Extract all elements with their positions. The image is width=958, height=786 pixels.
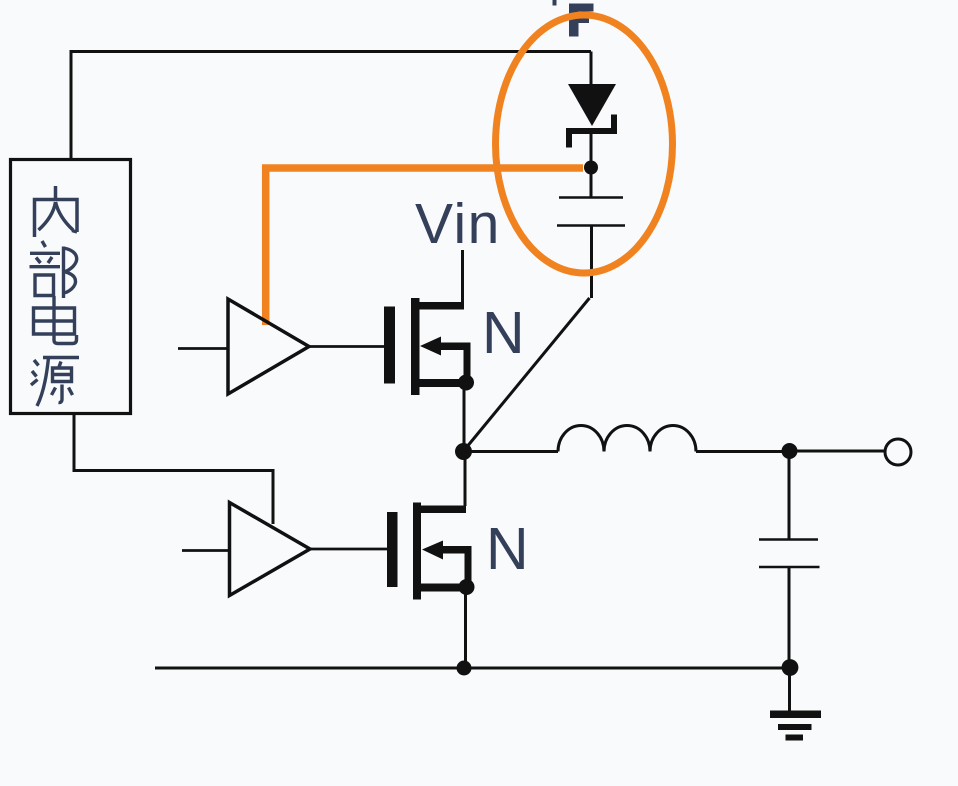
NMOS Q2 (low side) — [387, 503, 472, 600]
ground — [770, 711, 821, 741]
svg-text:Vin: Vin — [415, 192, 501, 256]
wire: diode stem from top rail — [590, 52, 593, 86]
node: Q2 body dot — [459, 579, 475, 595]
node: rail / Q2 source junction — [457, 661, 472, 676]
zener diode D1 — [566, 84, 617, 148]
wire: U1 output to Q1 gate — [309, 345, 384, 348]
label 源 — [31, 358, 79, 407]
wire: U1 input stub — [178, 347, 228, 350]
wire: Q2 drain to switch node — [464, 452, 467, 507]
svg-text:N: N — [482, 300, 525, 366]
driver U2 (bottom) — [230, 503, 311, 596]
wire: inductor to output node — [696, 450, 789, 453]
wire: Vin stub to Q1 drain — [461, 250, 464, 306]
node: output junction dot — [782, 443, 798, 459]
output terminal — [885, 439, 911, 465]
label F (cropped text) — [553, 0, 594, 37]
ground stem — [788, 668, 791, 711]
node: boot junction dot — [584, 161, 598, 175]
wire: supply bottom to lower driver — [74, 414, 273, 525]
wire: supply top rail to diode — [71, 52, 591, 160]
node: cap / rail junction dot — [782, 659, 799, 676]
wire: U2 output to Q2 gate — [310, 548, 387, 551]
output capacitor C2 — [788, 452, 791, 540]
wire: output node to terminal — [790, 450, 885, 453]
internal supply box — [11, 160, 131, 414]
wire: boot cap to switch node (diagonal) — [464, 298, 590, 451]
label 部 — [30, 241, 77, 298]
label 内 — [35, 186, 78, 237]
node: switch node dot — [455, 443, 472, 460]
highlight ellipse — [496, 15, 673, 273]
wire: switch node to inductor — [464, 450, 559, 453]
NMOS Q1 (high side) — [384, 298, 471, 395]
svg-text:N: N — [486, 516, 529, 582]
label 电 — [34, 296, 77, 344]
bootstrap capacitor C1 — [590, 168, 593, 197]
wire: diode cathode to boot node — [590, 134, 593, 167]
wire: Q2 source to ground rail — [464, 587, 467, 668]
wire: Q1 source to switch node — [463, 383, 466, 452]
inductor L1 — [558, 426, 696, 452]
driver U1 (top) — [228, 299, 309, 394]
node: Q1 body dot — [458, 375, 474, 391]
ground rail — [155, 667, 790, 670]
orange bootstrap wire — [266, 168, 583, 325]
wire: U2 input stub — [182, 549, 230, 552]
